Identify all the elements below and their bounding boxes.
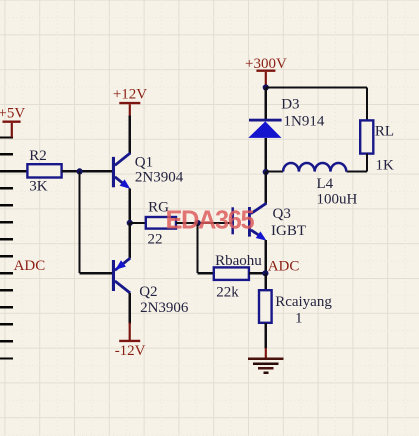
svg-text:ADC: ADC <box>14 258 46 274</box>
svg-text:Rbaohu: Rbaohu <box>215 253 262 269</box>
svg-text:-12V: -12V <box>115 343 146 359</box>
svg-text:+12V: +12V <box>113 86 147 102</box>
resistor RG <box>146 200 176 248</box>
connector pin 12 <box>0 323 13 325</box>
node ADC <box>262 270 268 276</box>
wire node down to Q2 base <box>78 171 80 273</box>
wire node down to Q3 collector <box>265 172 267 203</box>
power +300V <box>245 56 287 88</box>
connector pin 8 <box>0 255 13 257</box>
node D3/L4 <box>263 169 269 175</box>
connector pin 4 <box>0 187 13 189</box>
svg-text:D3: D3 <box>281 97 299 113</box>
svg-text:Q3: Q3 <box>273 206 291 222</box>
node emitters/RG <box>127 220 133 226</box>
wire Q3 emitter down <box>265 240 267 273</box>
wire top rail to RL <box>266 86 367 88</box>
resistor Rbaohu <box>214 253 262 300</box>
wire to Q2 base <box>80 272 113 274</box>
node RG/Rbaohu <box>195 220 201 226</box>
connector pin 1 <box>0 136 13 138</box>
svg-text:3K: 3K <box>29 178 48 194</box>
svg-text:L4: L4 <box>317 176 334 192</box>
wire down to RL <box>366 88 368 121</box>
svg-text:+5V: +5V <box>0 106 25 122</box>
wire to Rbaohu <box>198 272 214 274</box>
wire RG to Q3 gate <box>176 222 233 224</box>
resistor R2 <box>27 148 61 195</box>
resistor RL <box>360 120 394 173</box>
wire node down to Q2 emitter <box>129 223 131 258</box>
wire node to Rcaiyang <box>265 273 267 290</box>
transistor Q3 (IGBT) <box>233 203 306 240</box>
node after R2 <box>77 168 83 174</box>
wire Rbaohu to node <box>249 272 266 274</box>
wire D3 anode down <box>265 138 267 172</box>
power +12V <box>113 86 147 116</box>
wire Rcaiyang to ground <box>265 323 267 349</box>
svg-text:ADC: ADC <box>268 258 300 274</box>
node +300V <box>263 84 269 90</box>
connector pin 10 <box>0 289 13 291</box>
svg-text:IGBT: IGBT <box>271 223 306 239</box>
power +5V <box>0 106 25 138</box>
diode D3 <box>248 97 325 138</box>
wire node to L4 <box>266 171 283 173</box>
svg-text:1K: 1K <box>376 157 395 173</box>
wire Q1 emitter down <box>129 188 131 223</box>
wire node to D3 cathode <box>265 88 267 120</box>
wire Q2 collector down <box>129 293 131 324</box>
ground <box>248 348 284 373</box>
svg-text:2N3906: 2N3906 <box>140 300 189 316</box>
wire RL to L4 <box>346 171 367 173</box>
connector pin 13 <box>0 340 13 342</box>
power -12V <box>115 323 146 360</box>
wire node to RG <box>130 222 146 224</box>
wire +12V to Q1 collector <box>129 116 131 154</box>
svg-text:RL: RL <box>375 124 394 140</box>
connector pin 9 <box>0 272 13 274</box>
wire R2 to Q1 base <box>62 170 112 172</box>
wire pin to R2 <box>0 170 27 172</box>
svg-text:2N3904: 2N3904 <box>135 169 184 185</box>
svg-text:100uH: 100uH <box>317 191 358 207</box>
transistor Q1 <box>112 153 184 189</box>
svg-text:+300V: +300V <box>245 56 287 72</box>
connector pin 7 <box>0 238 13 240</box>
wire RL down <box>366 154 368 172</box>
svg-text:R2: R2 <box>29 148 47 164</box>
connector pin 6 <box>0 221 13 223</box>
connector pin 11 <box>0 306 13 308</box>
connector pin 14 <box>0 358 13 360</box>
svg-text:Q2: Q2 <box>139 284 157 300</box>
inductor L4 <box>283 163 357 207</box>
wire node down to Rbaohu <box>197 223 199 273</box>
svg-text:22: 22 <box>148 232 163 248</box>
transistor Q2 <box>112 258 189 316</box>
svg-text:1: 1 <box>295 311 303 327</box>
svg-text:1N914: 1N914 <box>284 113 325 129</box>
connector pin 2 <box>0 153 13 155</box>
svg-text:Rcaiyang: Rcaiyang <box>275 294 332 310</box>
svg-text:22k: 22k <box>216 284 239 300</box>
connector pin 5 <box>0 204 13 206</box>
svg-text:Q1: Q1 <box>135 155 153 171</box>
resistor Rcaiyang <box>259 290 332 326</box>
svg-text:EDA365: EDA365 <box>166 207 255 235</box>
